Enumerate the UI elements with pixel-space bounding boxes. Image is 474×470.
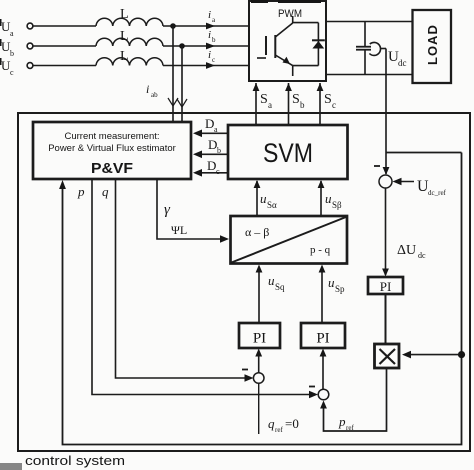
svg-text:SVM: SVM bbox=[263, 138, 313, 168]
label L phase b bbox=[120, 29, 129, 44]
label alpha-beta bbox=[245, 225, 269, 239]
wire phase b (source to inductor) bbox=[33, 45, 96, 47]
gate signal Sb bbox=[285, 83, 292, 125]
terminal Uc bbox=[27, 63, 33, 69]
svg-text:S: S bbox=[324, 92, 332, 107]
svg-text:i: i bbox=[208, 9, 211, 21]
svg-text:a: a bbox=[212, 16, 216, 24]
current arrow i_a bbox=[206, 23, 215, 30]
svg-text:L: L bbox=[120, 29, 129, 44]
svg-text:Power & Virtual Flux estimato: Power & Virtual Flux estimator bbox=[48, 143, 176, 154]
svg-text:=0: =0 bbox=[285, 416, 299, 431]
wire uSbeta bbox=[318, 180, 325, 216]
svg-text:ΨL: ΨL bbox=[171, 223, 187, 237]
svg-text:Sp: Sp bbox=[335, 284, 345, 294]
reference qref wire bbox=[258, 383, 260, 434]
sign minus at summing node 2 bbox=[309, 386, 315, 388]
duty wire Da bbox=[193, 130, 228, 138]
capacitor Cdc bbox=[356, 22, 371, 75]
node Uc label bbox=[0, 58, 14, 77]
svg-text:ref: ref bbox=[346, 424, 354, 432]
svg-text:u: u bbox=[328, 275, 335, 290]
svg-text:Sβ: Sβ bbox=[332, 200, 342, 210]
gate signal Sa bbox=[253, 83, 260, 125]
wire p output bbox=[92, 179, 311, 395]
label qref=0 bbox=[268, 416, 299, 434]
label Sb bbox=[292, 92, 305, 110]
wire q output bbox=[116, 179, 247, 378]
converter PWM box bbox=[249, 0, 326, 81]
svg-text:i: i bbox=[208, 29, 211, 41]
svg-text:u: u bbox=[260, 191, 267, 206]
svg-text:L: L bbox=[120, 49, 129, 64]
svg-text:Sq: Sq bbox=[275, 282, 285, 292]
scan artifact bottom left bbox=[0, 463, 22, 470]
label Udc_ref bbox=[417, 178, 447, 197]
block PI voltage bbox=[368, 277, 403, 294]
wire uSq bbox=[256, 265, 263, 324]
load box bbox=[413, 10, 452, 83]
label p bbox=[77, 184, 85, 199]
wire phase c (inductor to converter) bbox=[163, 65, 249, 67]
svg-text:L: L bbox=[120, 7, 129, 22]
svg-text:a: a bbox=[10, 29, 14, 38]
wire phase b (inductor to converter) bbox=[163, 45, 249, 47]
wire collector rail bbox=[293, 22, 319, 24]
multiplier X bbox=[375, 344, 400, 368]
label current measurement bbox=[64, 131, 159, 142]
svg-text:b: b bbox=[10, 49, 14, 58]
label i_b bbox=[208, 29, 216, 44]
inductor L phase c bbox=[96, 58, 163, 66]
junction phase b bbox=[179, 43, 185, 49]
arrow p into summing node 2 bbox=[309, 391, 318, 399]
block PI q bbox=[239, 323, 280, 348]
duty wire Dc bbox=[193, 169, 228, 177]
wire PI to multiplier bbox=[385, 294, 387, 344]
svg-text:b: b bbox=[300, 100, 305, 110]
label Sc bbox=[324, 92, 336, 110]
svg-text:D: D bbox=[207, 158, 216, 173]
label L phase a bbox=[120, 7, 129, 22]
svg-text:LOAD: LOAD bbox=[425, 24, 440, 65]
wire uSp bbox=[319, 265, 326, 324]
estimator P&VF box bbox=[33, 122, 191, 179]
svg-text:i: i bbox=[146, 82, 149, 96]
svg-text:a: a bbox=[268, 100, 272, 110]
svg-text:c: c bbox=[10, 68, 14, 77]
wire ib measurement bbox=[177, 46, 187, 122]
label i_ab bbox=[146, 82, 158, 99]
wire summing node 2 to PI p bbox=[320, 349, 327, 390]
wire phase c (source to inductor) bbox=[33, 65, 96, 67]
junction Udc feedback bbox=[458, 351, 465, 358]
label Sa bbox=[260, 92, 272, 110]
label pref bbox=[338, 414, 354, 432]
label uSalpha bbox=[260, 191, 277, 210]
svg-text:P&VF: P&VF bbox=[91, 160, 133, 177]
label p-q bbox=[310, 244, 331, 256]
svg-text:dc_ref: dc_ref bbox=[428, 189, 447, 197]
label power virtual flux estimator bbox=[48, 143, 176, 154]
label q bbox=[102, 184, 109, 199]
svg-text:S: S bbox=[292, 92, 300, 107]
svg-text:b: b bbox=[212, 36, 216, 44]
block PI p bbox=[301, 323, 345, 348]
wire summing node 1 to PI q bbox=[255, 349, 262, 373]
svg-text:c: c bbox=[332, 100, 336, 110]
svg-text:PI: PI bbox=[380, 279, 392, 294]
arrow q into summing node 1 bbox=[245, 374, 254, 382]
wire dc negative rail bbox=[326, 74, 413, 76]
svg-text:ab: ab bbox=[151, 91, 158, 99]
svg-text:b: b bbox=[217, 146, 221, 155]
reference pref wire bbox=[320, 368, 386, 431]
svg-text:Current measurement:: Current measurement: bbox=[64, 131, 159, 142]
label Db bbox=[208, 137, 221, 155]
label Udc bbox=[388, 49, 407, 68]
wire Udc measurement bbox=[383, 49, 390, 176]
svg-text:q: q bbox=[102, 184, 109, 199]
label L phase c bbox=[120, 49, 129, 64]
svg-text:ΔU: ΔU bbox=[397, 243, 416, 258]
duty wire Db bbox=[193, 151, 228, 159]
wire Udc_ref bbox=[393, 178, 415, 186]
svg-text:PWM: PWM bbox=[278, 8, 302, 20]
wire dc positive rail bbox=[326, 21, 413, 23]
svg-text:control system: control system bbox=[25, 453, 125, 468]
label dUdc bbox=[397, 243, 426, 260]
label uSq bbox=[268, 273, 285, 292]
summing node 2 (p) bbox=[318, 389, 329, 400]
block SVM bbox=[228, 125, 348, 179]
label gamma bbox=[164, 202, 171, 218]
diode freewheel bbox=[312, 23, 325, 66]
wire to multiplier bbox=[402, 351, 458, 359]
svg-text:Sα: Sα bbox=[267, 200, 277, 210]
control system box bbox=[18, 113, 470, 451]
wire uSalpha bbox=[254, 180, 261, 216]
summing node Udc bbox=[379, 175, 392, 188]
wire phase a (inductor to converter) bbox=[163, 25, 249, 27]
label PWM bbox=[278, 8, 302, 20]
label control system bbox=[25, 453, 125, 468]
svg-text:D: D bbox=[208, 137, 217, 152]
svg-text:S: S bbox=[260, 92, 268, 107]
terminal Ub bbox=[27, 43, 33, 49]
label i_a bbox=[208, 9, 216, 24]
junction phase a bbox=[170, 23, 176, 29]
label Da bbox=[205, 116, 218, 134]
summing node 1 (q) bbox=[253, 373, 264, 384]
sign minus at summing node 1 bbox=[242, 369, 248, 371]
terminal Ua bbox=[27, 23, 33, 29]
svg-text:q: q bbox=[268, 416, 275, 431]
current arrow i_b bbox=[206, 43, 215, 50]
node Ua label bbox=[0, 19, 14, 38]
svg-text:c: c bbox=[216, 167, 220, 176]
svg-text:ref: ref bbox=[275, 426, 283, 434]
label P&VF bbox=[91, 160, 133, 177]
label i_c bbox=[208, 49, 215, 64]
svg-text:p: p bbox=[77, 184, 85, 199]
svg-text:a: a bbox=[214, 125, 218, 134]
label uSp bbox=[328, 275, 345, 294]
sensor Udc bbox=[369, 42, 386, 55]
inductor L phase a bbox=[96, 18, 163, 26]
label Dc bbox=[207, 158, 220, 176]
gate signal Sc bbox=[317, 83, 324, 125]
svg-text:γ: γ bbox=[164, 202, 171, 218]
svg-text:dc: dc bbox=[398, 58, 407, 68]
svg-text:PI: PI bbox=[253, 331, 266, 347]
label PsiL bbox=[171, 223, 187, 237]
svg-text:D: D bbox=[205, 116, 214, 131]
svg-text:α – β: α – β bbox=[245, 225, 269, 239]
inductor L phase b bbox=[96, 38, 163, 46]
svg-text:PI: PI bbox=[316, 331, 329, 347]
node Ub label bbox=[0, 39, 14, 58]
svg-text:p: p bbox=[338, 414, 346, 429]
wire error dUdc bbox=[382, 188, 389, 277]
wire Udc branch bbox=[386, 152, 462, 154]
transistor IGBT bbox=[257, 16, 293, 76]
label uSbeta bbox=[325, 191, 342, 210]
svg-text:dc: dc bbox=[418, 251, 426, 260]
svg-text:u: u bbox=[268, 273, 275, 288]
wire gamma PsiL bbox=[157, 179, 229, 243]
wire ia measurement bbox=[168, 26, 178, 122]
svg-text:u: u bbox=[325, 191, 332, 206]
wire phase a (source to inductor) bbox=[33, 25, 96, 27]
wire emitter rail bbox=[293, 65, 319, 67]
block alpha-beta to p-q bbox=[231, 216, 348, 264]
wire Udc feedback to estimator bbox=[59, 153, 461, 445]
svg-text:p - q: p - q bbox=[310, 244, 331, 256]
svg-text:c: c bbox=[212, 56, 215, 64]
svg-text:i: i bbox=[208, 49, 211, 61]
sign minus at summing node Udc bbox=[374, 165, 380, 167]
current arrow i_c bbox=[206, 62, 215, 69]
